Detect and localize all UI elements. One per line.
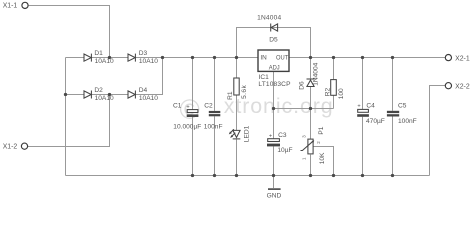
svg-text:C4: C4 [366,103,375,110]
diode D6 [307,80,314,86]
diode D3 [128,54,135,61]
node C1 top [191,56,194,59]
diode D2 [84,91,91,98]
svg-text:ADJ: ADJ [269,64,280,71]
wire X1-1 to bridge top [29,6,110,58]
svg-text:100nF: 100nF [398,118,417,125]
terminal X2-2 [445,83,451,89]
svg-text:X1-2: X1-2 [3,144,18,151]
svg-text:D6: D6 [299,81,306,90]
svg-text:LT1083CP: LT1083CP [258,81,291,88]
wire D1 anode stub [66,57,85,59]
svg-text:D3: D3 [139,50,148,57]
capacitor C4 plates [357,109,369,116]
node LED bottom [235,174,238,177]
node rectified + [161,56,164,59]
svg-text:10A10: 10A10 [95,58,114,65]
wire P1 top [310,109,312,140]
terminal X2-1 [445,55,451,61]
LED LED1 [233,130,240,137]
svg-text:C1: C1 [173,103,182,110]
svg-text:GND: GND [267,192,282,199]
svg-text:100nF: 100nF [204,123,223,130]
node R2 top [332,56,335,59]
svg-text:10A10: 10A10 [139,95,158,102]
svg-text:+: + [269,134,272,140]
svg-text:X1-1: X1-1 [3,2,18,9]
wire R2 bottom to ADJ [333,95,335,108]
node ADJ left [272,107,275,110]
wire P1 wiper link [313,147,333,176]
node C5 top [391,56,394,59]
IC1 LT1083CP box [258,50,289,71]
wire X2-2 [430,86,446,176]
wire C1 branch [192,58,194,110]
svg-text:D5: D5 [269,37,278,44]
wire ADJ pin down [273,72,275,139]
svg-text:1N4004: 1N4004 [313,62,320,85]
node P1 bottom [309,174,312,177]
node ADJ right [309,107,312,110]
potentiometer P1 body [308,139,313,154]
svg-text:R2: R2 [324,87,331,96]
wire output rail [289,57,445,59]
potentiometer P1 wiper arrow [301,141,314,150]
resistor R1 [234,78,239,95]
svg-text:10A10: 10A10 [139,58,158,65]
wire left negative vertical [65,58,67,176]
node wiper bottom [332,174,335,177]
svg-text:100: 100 [338,88,345,99]
node GND [272,174,275,177]
svg-text:470µF: 470µF [366,118,385,125]
svg-text:LED1: LED1 [243,125,250,142]
wire P1 bottom [310,155,312,176]
wire D2-D4 [92,94,129,96]
svg-text:10µF: 10µF [277,147,292,154]
wire D4 cathode up [136,58,163,95]
resistor R2 [331,80,337,96]
wire C5 branch [392,58,394,111]
svg-text:X2-1: X2-1 [455,55,470,62]
node C4 bottom [361,174,364,177]
wire R1 LED1 branch [236,58,238,79]
svg-text:OUT: OUT [276,55,288,62]
wire C4 branch [362,58,364,110]
wire C3 bottom [273,146,275,175]
svg-text:D4: D4 [139,87,148,94]
wire GND stub [273,176,275,189]
node C4 top [361,56,364,59]
node C2 bottom [213,174,216,177]
node R1/D5 top [235,56,238,59]
ground symbol [267,188,282,199]
svg-text:D2: D2 [94,87,103,94]
svg-text:+: + [186,104,189,110]
wire bottom ground rail [66,175,430,177]
node D2 anode [64,93,67,96]
node C2 top [213,56,216,59]
capacitor C5 plates [387,111,399,117]
node D5/D6 out [309,56,312,59]
diode D4 [128,91,135,98]
wire D2 anode stub [66,94,85,96]
wire D5 bypass loop [237,28,311,58]
capacitor C1 plates [187,110,199,117]
node bridge top AC [108,56,111,59]
wire D6 branch [310,58,312,79]
svg-text:10.000µF: 10.000µF [173,123,201,130]
terminal X1-2 [21,143,27,149]
svg-text:C2: C2 [204,103,213,110]
wire R2 top [333,58,335,80]
svg-text:X2-2: X2-2 [455,84,470,91]
wire input rail to IC IN [136,57,258,59]
svg-text:10A10: 10A10 [95,95,114,102]
svg-text:5.6k: 5.6k [241,85,248,99]
node C5 bottom [391,174,394,177]
svg-text:1N4004: 1N4004 [257,14,281,21]
capacitor C3 plates [267,139,280,147]
wire ADJ horizontal [274,108,334,110]
svg-text:10K: 10K [319,152,326,164]
svg-text:C5: C5 [398,103,407,110]
svg-text:D1: D1 [94,50,103,57]
node C1 bottom [191,174,194,177]
svg-text:+: + [357,103,360,109]
diode D1 [84,54,91,61]
node bridge bottom AC [108,93,111,96]
wire D1-D3 [92,57,129,59]
svg-text:P1: P1 [318,126,325,134]
wire X1-2 to bridge bottom [28,95,110,147]
svg-text:C3: C3 [278,132,287,139]
capacitor C2 plates [209,111,221,116]
svg-text:IN: IN [260,55,267,62]
diode D5 [271,24,278,31]
svg-text:R1: R1 [227,91,234,100]
wire C2 branch [214,58,216,111]
terminal X1-1 [22,2,28,8]
